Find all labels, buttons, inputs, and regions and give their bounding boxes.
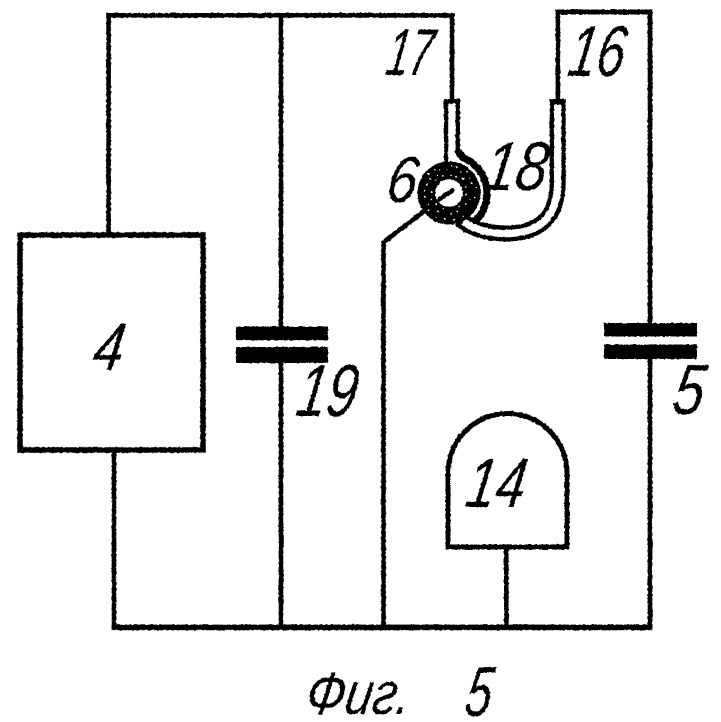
capacitor C5 top plate <box>604 323 697 337</box>
wire bottom bus <box>112 625 653 631</box>
tube 18 right stem top cap <box>550 99 566 104</box>
tube 18 left stem bore (white) <box>448 104 455 164</box>
block 4 (box) <box>20 235 203 450</box>
sensor 6 pointer tick <box>439 191 452 200</box>
tube 18 coil arc around sensor 6 <box>458 150 487 229</box>
wire top bus (left structure top line) <box>106 13 454 18</box>
tube 18 left stem (outer black) <box>444 99 460 152</box>
wire lamp 14 stem <box>504 547 509 629</box>
tube 18 left stem left wall extension <box>444 152 448 165</box>
wire drop from top bus to block 4 <box>106 13 111 233</box>
wire capacitor 19 top lead <box>279 13 284 327</box>
wire right vertical below capacitor 5 <box>648 359 653 629</box>
wire from sensor 6 to bottom bus <box>384 212 424 630</box>
capacitor C5 bottom plate <box>604 345 697 360</box>
tube 18 left stem top cap <box>444 99 460 104</box>
wire top-right bus (right structure top line) <box>556 10 653 15</box>
sensor 6 bore (white center) <box>435 179 463 207</box>
wire 17 (drop from top bus to tube left stem) <box>450 13 455 100</box>
wire block 4 bottom lead <box>112 450 117 629</box>
wire capacitor 19 bottom lead <box>279 363 284 629</box>
sensor 6 stippled annulus <box>418 162 481 225</box>
wire 16 (drop from right bus to tube right stem) <box>556 10 561 100</box>
svg-text:18: 18 <box>479 127 555 205</box>
lamp 14 (dome) <box>448 414 567 547</box>
capacitor C19 top plate <box>236 327 328 341</box>
tube 18 U-bend bore (white) <box>464 105 558 234</box>
svg-text:Фиг.: Фиг. <box>302 659 417 722</box>
capacitor C19 bottom plate <box>236 347 328 363</box>
svg-text:14: 14 <box>461 443 532 522</box>
tube 18 U-bend (outer black) <box>460 101 558 234</box>
wire right vertical to capacitor 5 <box>648 10 653 324</box>
